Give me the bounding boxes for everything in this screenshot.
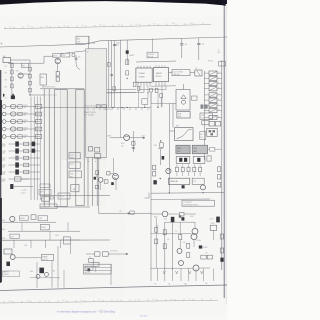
ladder row 8 wire <box>9 157 41 159</box>
horizontal wire y92.8 <box>107 92 136 94</box>
transistor Q801 chopper <box>192 228 198 234</box>
svg-text:12v: 12v <box>154 284 157 286</box>
svg-text:100: 100 <box>27 301 30 303</box>
svg-text:R115: R115 <box>2 144 6 146</box>
ladder row 2 port circle <box>2 112 6 116</box>
electrolytic capacitor C16 black body <box>15 141 19 146</box>
connector pin 1 wire left <box>204 72 209 74</box>
svg-text:C802: C802 <box>210 219 214 221</box>
svg-text:AE1: AE1 <box>77 38 80 41</box>
connector pin 3 wire right <box>217 83 222 85</box>
svg-text:delay: delay <box>70 157 74 159</box>
svg-text:R119: R119 <box>2 172 6 174</box>
svg-text:B/G D/K: B/G D/K <box>85 272 91 274</box>
svg-text:100: 100 <box>172 23 175 25</box>
svg-text:R210: R210 <box>24 105 28 107</box>
electrolytic capacitor C110 black body <box>15 169 19 174</box>
resistor ladder R9b <box>24 163 29 167</box>
electrolytic C801 black body <box>171 217 175 222</box>
connector pin 5 wire right <box>217 94 222 96</box>
resistor R207 on mid bus <box>113 87 116 91</box>
diode D802 black body <box>199 245 202 248</box>
svg-text:TUNER UV417: TUNER UV417 <box>44 87 56 89</box>
wire bottom-left rail y231 <box>8 230 80 232</box>
module top header line <box>40 88 84 90</box>
svg-text:SIF DET: SIF DET <box>156 76 162 78</box>
svg-text:90: 90 <box>45 300 47 302</box>
ladder row 6 wire <box>9 143 41 145</box>
IC U202 SOUND IF box <box>153 68 168 82</box>
resistor ladder R6b <box>24 142 29 146</box>
wire chroma row <box>86 253 95 255</box>
page top border line <box>0 37 227 47</box>
flyback waveform box <box>175 128 193 141</box>
connector pin box 2 <box>209 76 217 80</box>
top ruler numbers <box>10 23 193 29</box>
tuning resistor R3t <box>35 120 41 124</box>
resistor R104 <box>10 84 13 88</box>
ladder row 3 wire <box>6 121 40 123</box>
connector pin 6 wire right <box>217 99 222 101</box>
legend table rows <box>84 266 112 268</box>
svg-text:IF AMP VISION: IF AMP VISION <box>84 111 96 114</box>
wire verticals to bottom border <box>36 262 38 288</box>
ladder row 2 wire <box>6 113 40 115</box>
inductor L14 oval body <box>10 127 16 131</box>
decoder box 1 <box>69 153 80 159</box>
svg-text:40: 40 <box>135 299 137 301</box>
resistor R110 <box>56 77 59 81</box>
transistor Q403 regulator <box>162 211 168 217</box>
wire from border box down <box>88 36 90 49</box>
tuning resistor R5t <box>35 135 41 139</box>
stub wires below ICs <box>138 90 140 107</box>
wire left column bus <box>11 62 13 96</box>
svg-text:A: A <box>1 42 3 46</box>
connector pin 3 wire left <box>204 83 209 85</box>
wire row to tall box <box>30 94 57 96</box>
transistor Q804 <box>179 261 184 266</box>
label box frame osc <box>42 255 54 261</box>
ident box with A symbol <box>71 184 79 191</box>
wire right trunk 2 <box>172 104 174 128</box>
svg-text:3652: 3652 <box>193 151 197 153</box>
resistor ladder R2a <box>18 112 22 115</box>
svg-text:4: 4 <box>218 87 219 89</box>
wire mid bus 5 with diode <box>126 40 128 64</box>
svg-text:IC801: IC801 <box>211 223 215 225</box>
small box R410 <box>180 212 184 216</box>
wire Q102 base left <box>44 55 53 57</box>
svg-text:50: 50 <box>117 300 119 302</box>
diode D401 black body <box>182 185 185 188</box>
mid bus small box 1 <box>96 105 100 108</box>
svg-text:10k5: 10k5 <box>2 167 6 169</box>
svg-text:D801: D801 <box>190 216 194 218</box>
ladder row 5 wire <box>6 136 40 138</box>
trunk arrow <box>128 213 130 215</box>
audio coupling box <box>192 96 198 100</box>
resistor R206 on mid bus <box>108 62 111 66</box>
wire right power <box>212 230 214 240</box>
bottom ruler line <box>0 300 218 303</box>
heatsink box 1 with black bars <box>176 156 190 163</box>
svg-text:FR106: FR106 <box>20 218 25 220</box>
svg-text:C204: C204 <box>116 43 120 45</box>
svg-text:470: 470 <box>167 239 170 241</box>
resistor R102 <box>10 70 13 74</box>
svg-text:MODULE: MODULE <box>148 54 154 56</box>
capacitor C401 black body <box>153 180 156 184</box>
svg-text:70: 70 <box>81 300 83 302</box>
connector pin 4 wire right <box>217 88 222 90</box>
box right x63 <box>63 237 70 244</box>
ladder row 4 port circle <box>2 127 6 131</box>
scan mottle wash over module area <box>62 88 106 160</box>
capacitor C305 cluster <box>160 143 163 148</box>
page bottom border line <box>0 285 227 291</box>
wire power vertical 0 <box>155 218 157 268</box>
svg-text:10: 10 <box>10 26 12 28</box>
svg-text:find free: find free <box>140 315 148 318</box>
svg-text:25v: 25v <box>168 284 171 286</box>
label box mixer <box>62 53 70 57</box>
connector pin 6 wire left <box>204 99 209 101</box>
svg-text:1k: 1k <box>175 231 177 233</box>
svg-text:2: 2 <box>218 77 219 79</box>
svg-text:C1: C1 <box>218 50 220 52</box>
resistor R301 <box>107 172 110 175</box>
svg-text:D601: D601 <box>2 220 6 222</box>
resistor R303 <box>95 171 98 175</box>
video block wall 2 <box>92 90 94 206</box>
connector pin 2 wire right <box>217 77 222 79</box>
wire bottom ladder <box>14 186 34 188</box>
svg-text:30: 30 <box>46 26 48 28</box>
transistor Q604 small <box>45 272 49 276</box>
wire bottom center drops <box>89 256 91 258</box>
resistor R101 chain <box>10 64 13 68</box>
IF module shield box left wall <box>43 89 45 208</box>
svg-text:C305: C305 <box>153 145 157 147</box>
wire legend to border <box>110 264 112 285</box>
resistor R103 <box>10 77 13 81</box>
transistor Q205 chroma <box>124 135 130 141</box>
ladder row 9 wire <box>9 164 41 166</box>
bus pin ticks <box>87 108 89 110</box>
svg-text:110: 110 <box>190 23 193 25</box>
wire under IC loop 2 <box>107 87 145 93</box>
wire under IC loop <box>139 86 166 90</box>
box small y234 <box>10 234 20 238</box>
mid horizontal bus y107.5 <box>40 106 151 109</box>
resistor R205 <box>132 141 135 145</box>
ladder row 1 wire <box>6 106 40 108</box>
svg-text:22n: 22n <box>218 52 221 54</box>
wire tripler top <box>183 84 185 90</box>
capacitor C204 plates <box>113 44 117 46</box>
power wire y222 <box>165 221 195 223</box>
sound aux box <box>192 178 204 184</box>
video block wall 3 <box>96 90 98 206</box>
svg-text:60: 60 <box>100 25 102 27</box>
wire Q205 vertical <box>132 131 134 152</box>
left agc box <box>40 74 47 85</box>
wire Q403 left <box>151 213 162 215</box>
capacitor C207 plates <box>110 74 113 76</box>
svg-text:2593: 2593 <box>178 116 182 118</box>
svg-text:R5: R5 <box>184 242 186 244</box>
svg-text:PL201: PL201 <box>208 61 213 63</box>
decoder box 2 <box>69 162 80 168</box>
crystal X201 box <box>195 70 202 76</box>
paper background <box>0 0 227 320</box>
wire bottom-left rail y222 <box>0 221 56 223</box>
svg-text:DET 6.0 MHz: DET 6.0 MHz <box>84 115 94 117</box>
wire Q301 base <box>110 172 114 174</box>
wires bottom small cluster <box>30 277 60 279</box>
section boundary wire x151 <box>150 104 152 282</box>
svg-text:60: 60 <box>99 300 101 302</box>
resistor ladder R3a <box>18 120 22 123</box>
delay line box DL201 <box>172 70 190 76</box>
svg-text:2n2: 2n2 <box>202 43 205 45</box>
wire Q205 collector right <box>130 137 146 139</box>
black cap C806 <box>220 258 223 262</box>
wire right trunk 1 <box>168 104 170 193</box>
ladder row 5 port circle <box>2 135 6 139</box>
wire mid bus 3 <box>113 40 115 107</box>
small cap top <box>179 215 181 218</box>
wire power vertical 1 <box>164 222 166 270</box>
svg-text:u-w-link: u-w-link <box>21 190 27 192</box>
svg-text:1: 1 <box>218 72 219 74</box>
resistor R109 <box>56 72 59 77</box>
wire C305 down <box>160 153 162 165</box>
IC U201 top pins <box>137 66 139 68</box>
wire chopper net <box>186 233 191 235</box>
capacitor C18 gray body <box>15 156 18 161</box>
right margin resistor chain <box>218 167 221 172</box>
IF module shield box wall 2 <box>48 89 50 208</box>
transistor Q603 small <box>36 274 40 278</box>
IF can inner noise texture <box>86 49 106 157</box>
resistor R802 <box>163 230 166 235</box>
svg-text:2k2: 2k2 <box>24 137 27 139</box>
svg-text:40: 40 <box>64 25 66 27</box>
label box above U202 <box>147 52 158 58</box>
resistor ladder R10b <box>24 170 29 174</box>
resistor R106 <box>29 74 32 78</box>
svg-text:R116: R116 <box>2 151 6 153</box>
svg-text:TBA120: TBA120 <box>156 72 162 75</box>
resistor R212 below ICs <box>137 86 140 90</box>
inductor L13 oval body <box>10 119 16 123</box>
chroma bottom box 1 <box>95 252 100 256</box>
svg-text:LT SUPPLY: LT SUPPLY <box>183 202 193 204</box>
resistor R210 below U201 <box>133 82 136 86</box>
label box BF180 <box>53 54 61 58</box>
bottom ruler ticks <box>4 298 211 302</box>
capacitor C120 black body bottom <box>10 184 13 189</box>
ident stack box 3 AV switch <box>42 197 50 201</box>
svg-text:R118: R118 <box>2 165 6 167</box>
junction dots under IC <box>147 92 148 93</box>
resistor R213 below ICs <box>150 88 153 92</box>
wire mid bus 4 <box>120 40 122 64</box>
connector pin 4 wire left <box>204 88 209 90</box>
svg-text:R213: R213 <box>24 128 28 130</box>
wire agc down <box>42 85 44 88</box>
svg-text:80: 80 <box>63 300 65 302</box>
horizontal bus y193 <box>151 192 224 195</box>
wire Q301 emitter down <box>115 179 117 190</box>
IC U201 bottom pins <box>137 82 139 86</box>
small box pair mid <box>201 255 206 259</box>
connector pin 7 wire left <box>204 104 209 106</box>
svg-text:50: 50 <box>82 25 84 27</box>
resistor ladder R1a <box>18 105 22 108</box>
wire mid bus 2 <box>111 40 113 107</box>
svg-text:IF: IF <box>87 51 89 53</box>
svg-text:3: 3 <box>218 82 219 84</box>
resistor R805 <box>187 243 190 248</box>
svg-text:70: 70 <box>118 24 120 26</box>
svg-text:R610: R610 <box>2 229 6 231</box>
wire reg out <box>168 213 180 215</box>
svg-text:10k5: 10k5 <box>2 174 6 176</box>
heatsink box 2 with black bar <box>193 156 205 163</box>
resistor R107 <box>29 81 32 85</box>
svg-text:30: 30 <box>153 299 155 301</box>
svg-text:IF PCB: IF PCB <box>148 56 153 58</box>
svg-text:8: 8 <box>218 109 219 111</box>
resistor R211 below U202 <box>155 88 158 92</box>
connector pin 9 wire right <box>217 116 222 118</box>
connector bus wire left <box>203 71 205 160</box>
resistor R208 <box>126 71 129 75</box>
bottom extra verticals <box>21 222 23 231</box>
ident stack side box <box>50 197 53 199</box>
sound IC box <box>168 178 189 184</box>
svg-text:F330: F330 <box>70 173 74 175</box>
tuning resistor R4t <box>35 127 41 131</box>
resistor R803 <box>163 244 166 249</box>
resistor R108 <box>29 88 32 92</box>
svg-text:22n: 22n <box>78 57 81 59</box>
ladder row 11 wire <box>9 178 41 180</box>
ladder row 1 port circle <box>2 105 6 109</box>
wire osc coupling arc <box>76 55 80 70</box>
power bottom vertical stubs <box>156 269 158 282</box>
svg-text:2k2: 2k2 <box>24 122 27 124</box>
junction dot mid <box>160 178 161 179</box>
resistor chains under top boxes <box>175 167 178 171</box>
wires under IC to bus <box>144 104 146 107</box>
small box under IC <box>142 99 148 105</box>
transistor Q302 ident driver <box>98 177 103 182</box>
line output label box <box>200 113 213 120</box>
wire trunk top connect <box>169 103 176 105</box>
ident stack box 1 <box>40 184 50 187</box>
svg-text:5: 5 <box>218 93 219 95</box>
capacitor C101 black body <box>11 96 15 100</box>
svg-text:110: 110 <box>9 301 12 303</box>
IC U301 sync box <box>177 111 190 118</box>
chroma bottom box 2 <box>103 252 109 256</box>
wire IC row to crystal <box>190 72 195 74</box>
svg-text:C801: C801 <box>164 219 168 221</box>
connector pin 9 wire left <box>204 116 209 118</box>
connector right label box <box>219 62 226 67</box>
wire power vertical 3 <box>179 222 181 235</box>
connector pin pair box <box>209 121 214 126</box>
bottom-left label box small <box>2 271 19 276</box>
top ruler ticks <box>5 23 203 29</box>
module bottom line <box>40 194 110 196</box>
wire waveform box left <box>169 130 174 132</box>
resistor R401 chain <box>153 165 156 170</box>
small boxes y262 <box>93 262 99 266</box>
resistor ladder R4a <box>18 127 22 130</box>
opto box <box>210 225 216 230</box>
paper scan noise overlay <box>2 42 224 290</box>
svg-text:LINE: LINE <box>201 115 204 117</box>
IC U202 pins bottom <box>155 82 157 86</box>
connector pin box 7 <box>209 103 217 107</box>
svg-text:12V: 12V <box>119 211 122 213</box>
svg-text:R214: R214 <box>24 135 28 137</box>
connector pin box 9 <box>209 115 217 119</box>
electrolytic C601 black body <box>6 262 10 266</box>
ladder row 10 wire <box>9 171 41 173</box>
wire bottom power net <box>151 267 193 269</box>
svg-text:2k2: 2k2 <box>24 107 27 109</box>
inductor L15 oval body <box>10 134 16 138</box>
transistor Q803 <box>177 249 182 254</box>
connector bus wire right <box>221 60 223 270</box>
horizontal wire y89.5 <box>107 88 136 90</box>
svg-text:TR1: TR1 <box>16 71 19 73</box>
diode D301 black body <box>111 182 114 185</box>
svg-text:R211: R211 <box>121 143 125 145</box>
connector pin box 3 <box>209 81 217 85</box>
transistor Q802 chopper pair <box>191 234 197 240</box>
resistor R809 <box>155 227 158 232</box>
capacitor C206 plates <box>132 147 135 149</box>
tantalum capacitor C117 black body <box>32 142 36 147</box>
svg-text:IDENT: IDENT <box>40 192 45 194</box>
label box x85 bottom <box>85 266 93 270</box>
svg-text:R212: R212 <box>24 120 28 122</box>
resistor ladder R7b <box>24 149 29 153</box>
vertical output block gray box 2 <box>192 145 207 154</box>
svg-text:LINE 64us: LINE 64us <box>173 74 180 76</box>
svg-text:C8: C8 <box>206 253 208 255</box>
IF can bottom cluster small boxes <box>88 147 92 151</box>
svg-text:2n2: 2n2 <box>185 44 188 46</box>
svg-text:A: A <box>73 187 75 191</box>
inductor L12 oval body <box>10 112 16 116</box>
left ladder bus wires <box>30 97 32 201</box>
box x40 row2 <box>41 224 50 230</box>
wire C210 up <box>181 39 183 44</box>
junction dot <box>29 94 30 95</box>
svg-text:20: 20 <box>28 26 30 28</box>
black dot small <box>87 268 90 271</box>
LT supply label box <box>182 200 214 206</box>
svg-text:1k2: 1k2 <box>121 146 124 148</box>
